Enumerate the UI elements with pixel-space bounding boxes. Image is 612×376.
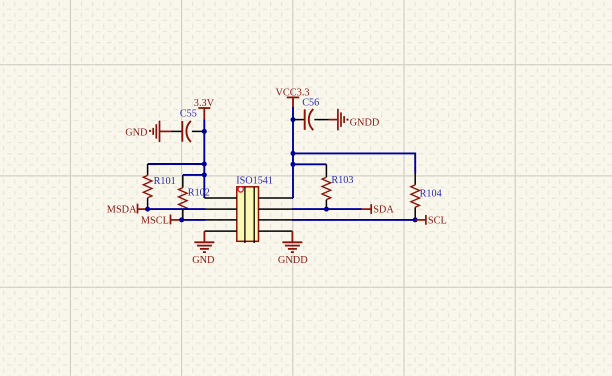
svg-text:GNDD: GNDD: [350, 118, 380, 129]
wire 3.3V rail: [203, 119, 205, 198]
svg-text:SDA: SDA: [373, 205, 394, 216]
svg-text:SCL: SCL: [428, 216, 447, 227]
pin left row2 (SDA1): [206, 208, 237, 210]
junction R101 branch: [202, 162, 207, 167]
resistor R104: [411, 174, 420, 220]
port MSDA: [138, 204, 148, 214]
wire MSDA: [148, 208, 206, 210]
power port VCC3.3: [287, 97, 299, 106]
power port GNDD (at C56): [329, 109, 344, 131]
wire to R102: [183, 174, 205, 176]
power port 3.3V: [198, 108, 210, 119]
IC ISO1541 body: [237, 187, 259, 243]
power port GND (at C55): [153, 121, 171, 143]
svg-text:R101: R101: [154, 176, 176, 187]
junction MSDA/R101: [145, 207, 150, 212]
junction R102 branch: [202, 172, 207, 177]
resistor R101: [143, 164, 152, 209]
ground GND (below pin 4): [194, 231, 214, 252]
capacitor C56: [293, 109, 329, 130]
svg-text:GNDD: GNDD: [278, 255, 308, 266]
junction SCL/R104: [413, 217, 418, 222]
svg-text:MSCL: MSCL: [141, 216, 169, 227]
svg-text:R103: R103: [331, 175, 353, 186]
port SCL: [415, 215, 426, 225]
wire to R101: [148, 163, 205, 165]
pin right row4 (GND2): [259, 230, 293, 232]
svg-text:R102: R102: [188, 187, 210, 198]
pin left row4 (GND1): [204, 230, 236, 232]
svg-text:GND: GND: [125, 127, 148, 138]
junction R103 branch: [291, 162, 296, 167]
svg-text:C56: C56: [302, 98, 319, 109]
svg-text:GND: GND: [192, 255, 215, 266]
junction R104 branch: [291, 151, 296, 156]
pin left row3 (SCL1): [206, 219, 237, 221]
resistor R102: [179, 175, 188, 220]
wire SCL: [292, 219, 416, 221]
wire to R103: [293, 163, 326, 165]
wire to R104: [293, 153, 415, 173]
resistor R103: [322, 164, 331, 209]
wire VCC rail: [292, 107, 294, 198]
junction SDA/R103: [324, 207, 329, 212]
pin left row1 (VCC1): [204, 197, 237, 199]
wire MSCL: [182, 219, 206, 221]
junction C55/rail: [202, 129, 207, 134]
wire rail corner to pin 8: [292, 197, 293, 199]
pin right row3 (SCL2): [259, 219, 292, 221]
svg-text:MSDA: MSDA: [107, 205, 137, 216]
port SDA: [362, 204, 372, 214]
svg-text:R104: R104: [420, 188, 442, 199]
svg-text:C55: C55: [180, 109, 197, 120]
pin right row2 (SDA2): [259, 208, 292, 210]
wire SDA: [292, 208, 362, 210]
ground GNDD (below pin 5): [282, 231, 302, 252]
junction C56/rail: [291, 117, 296, 122]
svg-text:ISO1541: ISO1541: [236, 176, 273, 187]
port MSCL: [171, 215, 182, 225]
pin right row1 (VCC2): [259, 197, 292, 199]
junction MSCL/R102: [179, 217, 184, 222]
svg-text:3.3V: 3.3V: [194, 98, 215, 109]
capacitor C55: [171, 121, 204, 142]
